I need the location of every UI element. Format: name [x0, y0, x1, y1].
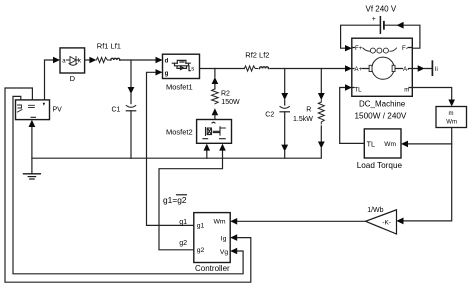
wire A- to current terminator: [412, 68, 431, 70]
resistor Rf2: [244, 66, 257, 71]
Mosfet2 block: [197, 120, 232, 144]
svg-text:g2: g2: [197, 247, 205, 254]
inductor Lf1: [111, 58, 120, 60]
svg-text:DC_Machine: DC_Machine: [359, 100, 406, 109]
wire Mosfet1 s to A+ bus: [200, 68, 346, 70]
wire gain output to controller Wm: [237, 220, 366, 222]
svg-text:Wm: Wm: [446, 119, 457, 125]
wire Mosfet2 left port to negative bus: [206, 151, 208, 158]
annotation g1 = g2 bar: [163, 195, 187, 205]
resistor R2: [212, 89, 219, 104]
svg-text:g1=g2: g1=g2: [163, 195, 187, 205]
arrowhead down R to bus: [318, 142, 325, 149]
svg-text:g: g: [165, 71, 169, 77]
svg-text:Controller: Controller: [195, 264, 230, 273]
node R junction: [320, 69, 322, 94]
resistor Rf1: [96, 57, 110, 62]
wire PV Ig sense to controller Ig (outer loop): [5, 88, 251, 282]
svg-text:R: R: [306, 107, 311, 114]
svg-text:F+: F+: [355, 45, 363, 52]
arrowhead down C2 to bus: [281, 145, 288, 152]
svg-text:Ig: Ig: [221, 235, 227, 242]
battery Vf: [372, 16, 384, 33]
svg-text:Mosfet1: Mosfet1: [166, 82, 193, 91]
svg-text:F-: F-: [402, 45, 408, 52]
svg-text:Mosfet2: Mosfet2: [166, 128, 193, 137]
gain input arrowhead: [397, 218, 404, 225]
capacitor C1: [126, 94, 135, 158]
wire m/Wm to gain: [404, 128, 452, 221]
svg-text:+: +: [372, 16, 376, 23]
svg-text:A+: A+: [354, 66, 362, 73]
resistor R: [318, 100, 324, 124]
svg-text:Rf1 Lf1: Rf1 Lf1: [97, 41, 121, 50]
DC_Machine block: [352, 38, 413, 96]
armature: [372, 57, 394, 79]
ground wire from PV: [31, 127, 33, 174]
controller Vg input arrowhead: [230, 248, 237, 255]
wire g1 from controller to Mosfet1 gate: [147, 72, 194, 225]
svg-text:s: s: [191, 67, 194, 73]
node C1 junction: [130, 60, 132, 88]
Mosfet1 block: [163, 54, 200, 78]
terminator bar Ii: [431, 61, 433, 75]
wire R2 to Mosfet2: [214, 114, 216, 120]
svg-text:1.5kW: 1.5kW: [293, 116, 313, 123]
svg-text:m: m: [449, 111, 454, 117]
ground: [24, 174, 41, 179]
wire Lf1 to Mosfet1 d: [120, 59, 156, 61]
svg-text:Ii: Ii: [435, 67, 438, 73]
m/Wm demux block: [436, 107, 467, 128]
svg-text:g1: g1: [197, 223, 205, 230]
svg-text:g1: g1: [179, 217, 187, 226]
svg-text:C2: C2: [265, 112, 274, 119]
wire node to Load Torque Wm: [408, 143, 452, 145]
wire m output to m/Wm block: [412, 88, 451, 100]
svg-text:Wm: Wm: [214, 218, 226, 225]
svg-text:TL: TL: [354, 86, 362, 93]
arrowhead up into R2: [212, 108, 219, 115]
capacitor C2: [280, 100, 289, 158]
svg-text:Vf 240 V: Vf 240 V: [366, 5, 397, 14]
Controller block: [194, 213, 230, 263]
svg-text:Load Torque: Load Torque: [357, 161, 403, 170]
gain 1/Wb: [366, 210, 397, 234]
wire D to Rf1Lf1: [85, 59, 90, 61]
svg-text:TL: TL: [367, 139, 375, 148]
arrowhead down into C1: [128, 87, 135, 94]
node C2 junction: [284, 69, 286, 94]
svg-text:C1: C1: [112, 107, 121, 114]
svg-text:Vg: Vg: [220, 249, 229, 256]
svg-text:A-: A-: [403, 66, 409, 73]
wire g2 from controller to Mosfet2 gate: [159, 151, 223, 250]
wire PV output to diode D: [45, 60, 54, 100]
svg-text:-K-: -K-: [382, 220, 391, 227]
svg-text:PV: PV: [53, 107, 63, 114]
wire battery plus to F+: [341, 25, 381, 48]
negative bus wire: [32, 157, 321, 159]
svg-text:Wm: Wm: [384, 141, 396, 148]
Load Torque block: [364, 129, 401, 158]
node R2 junction / wire down to R2: [214, 69, 216, 90]
svg-text:1500W / 240V: 1500W / 240V: [355, 112, 407, 121]
field coil: [363, 48, 370, 51]
svg-text:D: D: [70, 74, 76, 83]
svg-text:1/Wb: 1/Wb: [367, 207, 383, 214]
controller Ig input arrowhead: [230, 234, 237, 241]
diode D: [60, 48, 85, 73]
svg-text:d: d: [165, 59, 169, 65]
PV block: [16, 100, 50, 120]
wire Load Torque TL to machine TL: [340, 88, 365, 144]
svg-text:g2: g2: [179, 238, 187, 247]
inductor Lf2: [260, 67, 269, 69]
svg-text:Rf2 Lf2: Rf2 Lf2: [245, 50, 269, 59]
wire F- to battery minus: [384, 25, 420, 48]
svg-text:150W: 150W: [221, 99, 240, 106]
svg-text:R2: R2: [221, 91, 230, 98]
wire PV Vg sense to controller Vg (inner loop): [13, 96, 243, 273]
